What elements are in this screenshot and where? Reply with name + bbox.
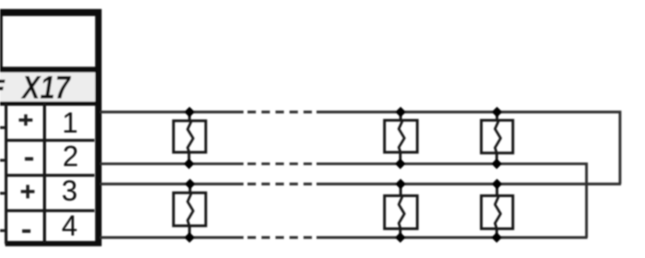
svg-text:2: 2 xyxy=(63,141,79,173)
wire 3 (terminal 3 bus, solid left) xyxy=(100,183,244,186)
terminal 3 polarity + xyxy=(21,185,35,198)
inner vertical line (left of +/- column) xyxy=(5,103,8,244)
junction dot wire3/F4 xyxy=(185,179,196,190)
junction dot wire3/F5 xyxy=(395,179,406,190)
svg-text:3: 3 xyxy=(62,176,78,208)
row separator 3/4 xyxy=(5,209,95,212)
surge arrester F6 (col 3, wires 3-4) xyxy=(481,184,513,238)
left column tick 4 xyxy=(0,229,5,232)
junction dot wire2/F1 xyxy=(184,158,195,169)
left column tick 2 xyxy=(0,159,5,162)
top box top border xyxy=(0,9,102,16)
table header band (gray) xyxy=(0,72,95,103)
svg-text:X17: X17 xyxy=(20,70,72,106)
top box left edge (cut off) xyxy=(0,9,3,70)
wire 1 dashed continuation xyxy=(248,111,313,114)
surge arrester F1 (col 1, wires 1-2) xyxy=(174,112,206,164)
svg-text:1: 1 xyxy=(62,107,78,139)
wire 1 solid right + corner down xyxy=(317,112,621,184)
row separator 1/2 xyxy=(5,139,95,142)
junction dot wire1/F2 xyxy=(395,107,406,118)
wire 4 solid right to junction with wire 2 drop xyxy=(317,236,588,239)
wire 2 solid right + corner down to wire 4 xyxy=(317,164,587,238)
terminal 4 polarity - xyxy=(22,229,30,232)
junction dot wire2/F3 xyxy=(491,158,502,169)
wire 1 (terminal 1 bus, solid left) xyxy=(100,111,244,114)
left column tick 1 xyxy=(0,126,5,129)
terminal 1 polarity + xyxy=(19,114,33,125)
label X17 (partial char at left edge) xyxy=(0,80,5,91)
svg-text:4: 4 xyxy=(62,211,78,243)
wire 4 (terminal 4 bus, solid left) xyxy=(100,236,244,239)
surge arrester F2 (col 2, wires 1-2) xyxy=(385,112,418,164)
wire 3 solid right to junction with wire 1 drop xyxy=(317,183,622,186)
wire 4 dashed continuation xyxy=(248,236,313,239)
junction dot wire4/F4 xyxy=(184,232,195,243)
inner vertical line (between +/- and numbers) xyxy=(43,103,46,243)
junction dot wire1/F3 xyxy=(492,107,503,118)
wire 2 dashed continuation xyxy=(248,162,313,165)
junction dot wire4/F5 xyxy=(395,232,406,243)
junction dot wire1/F1 xyxy=(184,107,195,118)
junction dot wire3/F6 xyxy=(492,179,503,190)
wire 3 dashed continuation xyxy=(248,183,313,186)
terminal 2 polarity - xyxy=(25,157,33,160)
junction dot wire4/F6 xyxy=(491,232,502,243)
header band bottom border xyxy=(0,102,102,106)
table right thick border xyxy=(95,9,101,246)
left column tick 3 xyxy=(0,192,5,195)
top box bottom border xyxy=(0,67,102,73)
junction dot wire2/F2 xyxy=(395,158,406,169)
row separator 2/3 xyxy=(5,174,95,177)
surge arrester F5 (col 2, wires 3-4) xyxy=(385,184,418,238)
surge arrester F3 (col 3, wires 1-2) xyxy=(481,112,513,164)
table bottom border xyxy=(5,241,101,246)
surge arrester F4 (col 1, wires 3-4) xyxy=(174,184,206,238)
terminal block X17 table xyxy=(0,9,102,246)
wire 2 (terminal 2 bus, solid left) xyxy=(100,162,244,165)
